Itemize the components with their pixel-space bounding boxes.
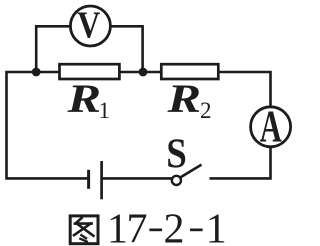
svg-text:2: 2: [164, 207, 185, 246]
svg-text:A: A: [260, 103, 282, 152]
svg-text:1: 1: [99, 98, 111, 123]
node junction J2: [139, 68, 148, 77]
battery cell: [89, 161, 102, 199]
switch S: [172, 165, 202, 185]
wire R1 to R2: [120, 71, 162, 74]
wire bottom-left + left side + top-left run: [7, 72, 88, 178]
svg-text:2: 2: [200, 98, 212, 123]
svg-text:R: R: [166, 76, 201, 121]
voltmeter U-V: [70, 4, 110, 46]
wire voltmeter branch right: [110, 26, 142, 72]
svg-text:S: S: [166, 130, 187, 177]
caption glyph 图: [70, 216, 98, 244]
wire ammeter to switch: [210, 148, 271, 179]
svg-text:17: 17: [107, 207, 147, 246]
wire switch to battery: [102, 177, 172, 180]
wire R2 to ammeter: [217, 72, 271, 106]
node junction J1: [32, 68, 41, 77]
svg-text:1: 1: [206, 207, 227, 246]
caption text 17-2-1: [107, 207, 227, 246]
resistor R2: [161, 64, 218, 79]
ammeter U-A: [251, 103, 291, 152]
svg-text:R: R: [66, 76, 101, 121]
resistor R1: [60, 64, 120, 79]
svg-text:V: V: [77, 4, 100, 46]
wire voltmeter branch left: [36, 26, 70, 72]
